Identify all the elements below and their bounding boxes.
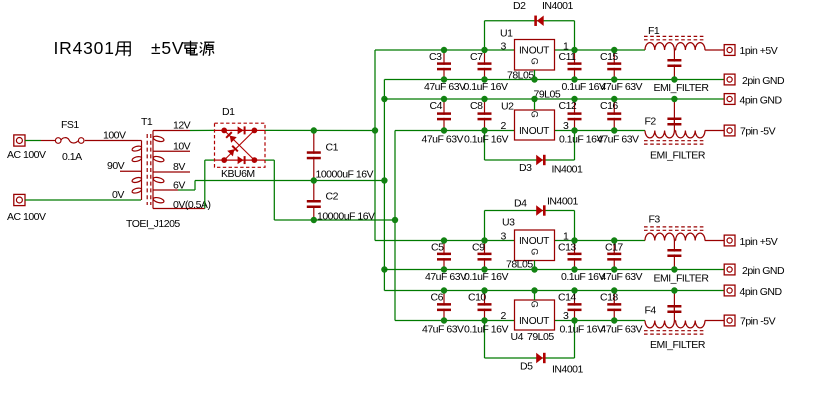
regulator U3 [515, 230, 555, 261]
capacitor C14 [558, 291, 604, 336]
capacitor C1 [307, 131, 374, 181]
wire bridge + lead [254, 129, 265, 131]
svg-text:C1: C1 [326, 142, 339, 154]
wire secondary 10V tap stub [153, 150, 190, 152]
bridge diagonal BL-TR [224, 130, 254, 160]
EMI filter F1 [644, 25, 709, 94]
junction on U3 gnd x=484.5 [481, 266, 487, 272]
junction on U2 gnd x=614.25 [611, 96, 617, 102]
junction on U1 rail x=574.5 [571, 47, 577, 53]
svg-text:79L05: 79L05 [527, 331, 554, 343]
svg-text:EMI_FILTER: EMI_FILTER [654, 273, 710, 285]
capacitor C9 [464, 241, 508, 284]
svg-text:IN: IN [519, 126, 528, 137]
wire diode loop left of U1 [484, 21, 486, 50]
D5 IN4001 [536, 353, 545, 363]
wire U3 ground pin [534, 261, 536, 270]
svg-text:78L05: 78L05 [507, 70, 534, 82]
junction on U4 gnd x=484.5 [481, 287, 487, 293]
svg-text:2: 2 [501, 120, 507, 132]
svg-text:0.1uF 16V: 0.1uF 16V [464, 324, 508, 336]
svg-text:47uF 63V: 47uF 63V [601, 81, 643, 93]
capacitor C4 [422, 99, 464, 146]
transformer primary winding loop [131, 145, 142, 152]
junction C1 top [311, 127, 317, 133]
junction U1 G pin [531, 76, 537, 82]
title text IR4301用 ±5V電源 [54, 38, 215, 58]
junction on U1 gnd x=574.5 [571, 76, 577, 82]
transformer primary winding loop [131, 177, 142, 184]
svg-text:AC 100V: AC 100V [7, 211, 46, 223]
junction 0V mid rail [381, 177, 387, 183]
transformer primary 90V tap stub [120, 170, 142, 172]
EMI filter F4 [644, 291, 706, 352]
wire diode loop top/bottom of U3 [485, 210, 575, 212]
wire +12V vertical bus [374, 50, 376, 241]
wire diode loop left of U3 [484, 211, 486, 241]
junction on U4 rail x=574.5 [571, 317, 577, 323]
junction on U4 gnd x=574.5 [571, 287, 577, 293]
wire bridge - lead [254, 159, 265, 161]
bridge top edge wire [224, 129, 254, 131]
svg-text:C8: C8 [470, 100, 483, 112]
junction bridge TR [252, 127, 258, 133]
wire U2 output to port [705, 130, 724, 132]
junction C1/C2 mid [311, 177, 317, 183]
wire bridge AC1 lead [215, 129, 225, 131]
svg-text:C2: C2 [326, 191, 339, 203]
svg-text:OUT: OUT [529, 316, 549, 327]
wire 12V tap to bridge [190, 129, 215, 131]
svg-text:0.1uF 16V: 0.1uF 16V [464, 81, 508, 93]
EMI filter F2 [644, 99, 706, 162]
capacitor C6 [422, 291, 464, 336]
wire U1 output rail [555, 49, 646, 51]
junction on U2 rail x=574.5 [571, 127, 577, 133]
wire U1 output to port [705, 49, 724, 51]
wire fuse to transformer primary 100V [85, 140, 138, 142]
junction on U3 rail x=614.25 [611, 237, 617, 243]
svg-text:7pin -5V: 7pin -5V [740, 126, 776, 138]
diode D1b (bottom edge) [238, 156, 246, 164]
diode D1a (top edge) [238, 126, 246, 134]
wire U1 ground pin [534, 70, 536, 80]
wire U4 ground pin [534, 291, 536, 301]
wire U1 input rail [375, 49, 515, 51]
bridge rectifier D1 KBU6M [215, 106, 266, 180]
svg-text:0.1uF 16V: 0.1uF 16V [561, 271, 605, 283]
junction on U1 rail x=614.25 [611, 47, 617, 53]
junction on U4 rail x=444 [441, 317, 447, 323]
capacitor C10 [464, 291, 508, 336]
svg-text:G: G [530, 301, 540, 308]
svg-text:3: 3 [501, 41, 507, 53]
wire U4 output to port [705, 320, 724, 322]
junction on U2 rail x=614.25 [611, 127, 617, 133]
wire U2 input rail [395, 130, 515, 132]
junction on U1 gnd x=444 [441, 76, 447, 82]
svg-text:C6: C6 [431, 292, 444, 304]
wire 0V(0.5A) vertical to bridge [204, 160, 206, 208]
junction on U1 rail x=444 [441, 47, 447, 53]
svg-text:D3: D3 [519, 162, 532, 174]
svg-text:2pin GND: 2pin GND [742, 75, 785, 87]
capacitor C7 [464, 50, 508, 93]
wire ground rail of U1 section [384, 79, 724, 81]
junction F1 cap to gnd [671, 76, 677, 82]
svg-text:TOEI_J1205: TOEI_J1205 [126, 218, 180, 230]
svg-text:4pin GND: 4pin GND [740, 286, 783, 298]
svg-text:OUT: OUT [529, 236, 549, 247]
svg-text:EMI_FILTER: EMI_FILTER [650, 339, 706, 351]
wire U2 ground pin [534, 99, 536, 110]
svg-text:0.1A: 0.1A [62, 151, 82, 163]
wire secondary 8V tap stub [153, 171, 190, 173]
diode D1d (on BL-TR diagonal) [227, 145, 238, 156]
svg-text:2: 2 [501, 310, 507, 322]
transformer secondary winding [152, 131, 154, 209]
wire diode loop right of U4 [574, 321, 576, 359]
wire mid rail (0V) to C1/C2 junction [195, 180, 384, 182]
svg-text:3: 3 [563, 310, 569, 322]
wire U2 output rail [555, 130, 646, 132]
svg-text:47uF 63V: 47uF 63V [425, 271, 467, 283]
wire secondary 6V tap [153, 189, 178, 191]
connector 2pin GND (lower) [724, 264, 735, 275]
svg-text:D4: D4 [514, 198, 527, 210]
capacitor C5 [425, 241, 467, 284]
junction 0V bus / gnd2 rail [381, 96, 387, 102]
svg-text:0.1uF 16V: 0.1uF 16V [464, 271, 508, 283]
junction on U2 gnd x=444 [441, 96, 447, 102]
svg-text:OUT: OUT [529, 46, 549, 57]
D4 IN4001 [536, 205, 545, 215]
wire secondary 0V(0.5A) tap [153, 208, 205, 210]
wire diode loop right of U2 [574, 131, 576, 161]
junction U3 G pin [531, 266, 537, 272]
wire bridge + output to C1 rail [265, 129, 375, 131]
svg-text:D5: D5 [520, 361, 533, 373]
junction on U1 gnd x=614.25 [611, 76, 617, 82]
regulator U1 [515, 40, 555, 71]
svg-text:KBU6M: KBU6M [221, 168, 255, 180]
capacitor C8 [464, 99, 508, 146]
svg-text:1pin +5V: 1pin +5V [740, 236, 778, 248]
regulator U2 [515, 110, 555, 140]
junction on U3 rail x=444 [441, 237, 447, 243]
connector 4pin GND (lower) [724, 285, 735, 296]
svg-text:IN4001: IN4001 [552, 164, 584, 176]
bridge diagonal TL-BR [224, 130, 254, 160]
wire diode loop top/bottom of U2 [485, 159, 575, 161]
wire U4 input rail [395, 320, 515, 322]
junction F2 cap to gnd [671, 96, 677, 102]
transformer primary winding [141, 141, 143, 201]
svg-text:AC 100V: AC 100V [7, 149, 46, 161]
wire diode loop right of U1 [574, 21, 576, 50]
junction on U4 gnd x=614.25 [611, 287, 617, 293]
svg-text:100V: 100V [103, 130, 126, 142]
junction on U2 gnd x=484.5 [481, 96, 487, 102]
wire diode loop top/bottom of U4 [485, 357, 575, 359]
svg-text:IN4001: IN4001 [547, 196, 579, 208]
svg-text:4pin GND: 4pin GND [740, 95, 783, 107]
transformer secondary winding loop [153, 135, 165, 142]
svg-text:FS1: FS1 [61, 119, 79, 131]
wire 6V tap to elbow [178, 189, 195, 191]
svg-text:2pin GND: 2pin GND [742, 265, 785, 277]
svg-text:0.1uF 16V: 0.1uF 16V [562, 81, 606, 93]
svg-text:0V: 0V [112, 189, 124, 201]
wire ground rail of U3 section [384, 269, 724, 271]
capacitor C3 [424, 50, 466, 93]
junction on U4 rail x=614.25 [611, 317, 617, 323]
wire U4 output rail [555, 320, 646, 322]
connector 1pin +5V (upper) [724, 45, 735, 56]
wire fuse lead into primary [138, 140, 142, 142]
junction U2 G pin [531, 96, 537, 102]
junction on U4 rail x=484.5 [481, 317, 487, 323]
svg-text:47uF 63V: 47uF 63V [422, 324, 464, 336]
regulator U4 [515, 300, 555, 330]
svg-text:10V: 10V [173, 141, 191, 153]
junction on U2 rail x=444 [441, 127, 447, 133]
svg-text:F4: F4 [645, 305, 657, 317]
junction on U2 rail x=484.5 [481, 127, 487, 133]
svg-text:C3: C3 [429, 51, 442, 63]
fuse FS1 0.1A [41, 119, 84, 163]
svg-text:F3: F3 [649, 214, 661, 226]
svg-text:C7: C7 [470, 51, 483, 63]
wire bridge AC2 lead [215, 159, 225, 161]
svg-text:IN4001: IN4001 [552, 364, 584, 376]
wire 6V elbow up [194, 181, 196, 191]
junction U4 G pin [531, 287, 537, 293]
junction on U3 gnd x=614.25 [611, 266, 617, 272]
svg-text:90V: 90V [107, 160, 125, 172]
junction 0V bus / gnd3 rail [381, 266, 387, 272]
junction F3 cap to gnd [671, 266, 677, 272]
svg-text:0.1uF 16V: 0.1uF 16V [560, 324, 604, 336]
junction on U3 rail x=574.5 [571, 237, 577, 243]
EMI filter F3 [644, 214, 709, 285]
connector 2pin GND (upper) [724, 74, 735, 85]
transformer secondary winding loop [153, 176, 165, 183]
wire U3 output rail [555, 240, 646, 242]
svg-text:OUT: OUT [529, 126, 549, 137]
transformer secondary winding loop [153, 155, 165, 162]
wire diode loop left of U4 [484, 321, 486, 359]
svg-text:47uF 63V: 47uF 63V [597, 134, 639, 146]
junction F4 cap to gnd [671, 287, 677, 293]
junction on U3 rail x=484.5 [481, 237, 487, 243]
wire ground rail of U2 section [384, 98, 724, 100]
svg-text:D1: D1 [222, 106, 235, 118]
junction on U2 gnd x=574.5 [571, 96, 577, 102]
junction on U3 gnd x=444 [441, 266, 447, 272]
wire bridge - output lead [265, 159, 274, 161]
svg-text:U4: U4 [511, 331, 524, 343]
bridge bottom edge wire [224, 159, 254, 161]
wire secondary 12V tap [153, 130, 190, 132]
wire U3 input rail [375, 240, 515, 242]
svg-text:47uF 63V: 47uF 63V [601, 271, 643, 283]
junction C2 bottom [311, 217, 317, 223]
svg-text:EMI_FILTER: EMI_FILTER [654, 82, 710, 94]
junction bridge TL [221, 127, 227, 133]
capacitor C2 [307, 181, 375, 223]
capacitor C17 [601, 241, 643, 284]
transformer T1 TOEI_J1205 [107, 116, 180, 230]
junction on U1 gnd x=484.5 [481, 76, 487, 82]
connector AC 100V (bottom) [7, 194, 46, 223]
svg-text:IR4301: IR4301 [54, 38, 115, 58]
svg-text:EMI_FILTER: EMI_FILTER [650, 150, 706, 162]
svg-text:U1: U1 [500, 28, 513, 40]
svg-text:IN: IN [519, 46, 528, 57]
svg-text:U3: U3 [502, 217, 515, 229]
transformer primary winding loop [131, 187, 142, 194]
svg-text:T1: T1 [141, 116, 153, 128]
capacitor C15 [600, 50, 643, 93]
junction on U4 gnd x=444 [441, 287, 447, 293]
wire bridge bottom-left lead [205, 159, 215, 161]
svg-text:±5V: ±5V [151, 38, 184, 58]
transformer secondary winding loop [153, 197, 165, 204]
junction +12V rail [372, 127, 378, 133]
svg-text:78L05: 78L05 [506, 259, 533, 271]
svg-text:10000uF 16V: 10000uF 16V [316, 169, 374, 181]
wire diode loop top/bottom of U1 [485, 20, 575, 22]
svg-text:C4: C4 [430, 100, 443, 112]
connector AC 100V (top) [7, 135, 46, 161]
svg-text:10000uF 16V: 10000uF 16V [317, 211, 375, 223]
junction bridge BR [252, 157, 258, 163]
wire AC1 to fuse [25, 140, 41, 142]
svg-text:D2: D2 [513, 0, 526, 12]
wire bottom rail (-) to -12V vertical [274, 219, 395, 221]
junction -12V bottom rail [392, 217, 398, 223]
svg-text:0.1uF 16V: 0.1uF 16V [464, 134, 508, 146]
svg-text:U2: U2 [501, 101, 514, 113]
svg-text:3: 3 [563, 120, 569, 132]
svg-text:IN: IN [519, 236, 528, 247]
svg-text:F2: F2 [645, 116, 657, 128]
capacitor C11 [559, 50, 606, 93]
svg-text:47uF 63V: 47uF 63V [424, 81, 466, 93]
capacitor C18 [600, 291, 643, 336]
wire diode loop right of U3 [574, 211, 576, 241]
wire 0V vertical bus [383, 80, 385, 291]
capacitor C13 [558, 241, 605, 284]
svg-text:1pin +5V: 1pin +5V [740, 45, 778, 57]
svg-text:G: G [530, 111, 540, 118]
svg-text:C5: C5 [431, 242, 444, 254]
svg-text:G: G [530, 248, 540, 255]
svg-text:12V: 12V [173, 120, 191, 132]
svg-text:8V: 8V [173, 161, 185, 173]
transformer core [146, 134, 148, 205]
capacitor C16 [597, 99, 639, 146]
connector 1pin +5V (lower) [724, 235, 735, 246]
svg-text:47uF 63V: 47uF 63V [422, 134, 464, 146]
connector 7pin -5V (lower) [724, 315, 735, 326]
svg-text:47uF 63V: 47uF 63V [601, 324, 643, 336]
D3 IN4001 [536, 155, 545, 165]
diode D1c (on TL-BR diagonal) [225, 131, 236, 142]
capacitor C12 [559, 99, 604, 146]
svg-text:G: G [530, 58, 540, 65]
wire -12V vertical bus [394, 131, 396, 321]
wire U3 output to port [705, 240, 724, 242]
svg-text:F1: F1 [648, 25, 660, 37]
connector 7pin -5V (upper) [724, 125, 735, 136]
junction on U1 rail x=484.5 [481, 47, 487, 53]
junction on U3 gnd x=574.5 [571, 266, 577, 272]
wire bridge - down to bottom rail [273, 160, 275, 220]
D2 IN4001 [534, 16, 543, 26]
connector 4pin GND (upper) [724, 94, 735, 105]
svg-text:IN: IN [519, 316, 528, 327]
svg-text:IN4001: IN4001 [542, 0, 574, 12]
wire ground rail of U4 section [384, 290, 724, 292]
svg-text:7pin -5V: 7pin -5V [740, 316, 776, 328]
wire diode loop left of U2 [484, 131, 486, 161]
wire AC2 to transformer primary 0V [25, 199, 141, 201]
junction bridge BL [221, 157, 227, 163]
svg-text:3: 3 [501, 231, 507, 243]
transformer primary winding loop [131, 156, 142, 163]
